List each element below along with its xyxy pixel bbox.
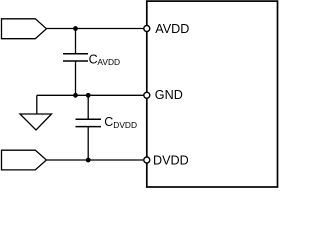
svg-text:C: C bbox=[104, 115, 113, 129]
wire DVDD horizontal bbox=[46, 159, 143, 161]
node DVDD input flag bbox=[2, 150, 47, 170]
ground bbox=[20, 95, 52, 130]
pin GND terminal circle bbox=[144, 92, 150, 98]
svg-text:AVDD: AVDD bbox=[97, 57, 120, 67]
pin DVDD terminal circle bbox=[144, 157, 150, 163]
junction dot GND/CAVDD bbox=[73, 93, 78, 98]
wire C_AVDD bottom lead bbox=[75, 61, 77, 95]
value label CDVDD bbox=[104, 115, 137, 130]
IC U1 body bbox=[147, 1, 278, 187]
pin AVDD terminal circle bbox=[144, 26, 150, 32]
capacitor CAVDD bbox=[63, 54, 88, 61]
value label CAVDD bbox=[89, 52, 120, 67]
junction dot GND/CDVDD bbox=[86, 93, 91, 98]
junction dot DVDD/CDVDD bbox=[86, 158, 91, 163]
node AVDD input flag bbox=[2, 19, 47, 39]
wire C_DVDD top lead bbox=[87, 95, 89, 119]
wire C_AVDD top lead bbox=[75, 29, 77, 54]
wire C_DVDD bottom lead bbox=[87, 127, 89, 160]
svg-text:DVDD: DVDD bbox=[113, 120, 137, 130]
junction dot AVDD/CAVDD bbox=[73, 26, 78, 31]
svg-text:DVDD: DVDD bbox=[153, 153, 189, 167]
svg-text:C: C bbox=[89, 52, 98, 66]
capacitor CDVDD bbox=[76, 119, 102, 126]
svg-text:AVDD: AVDD bbox=[155, 22, 189, 36]
wire AVDD horizontal bbox=[46, 28, 143, 30]
wire GND horizontal bbox=[37, 94, 144, 96]
svg-text:GND: GND bbox=[155, 88, 183, 102]
